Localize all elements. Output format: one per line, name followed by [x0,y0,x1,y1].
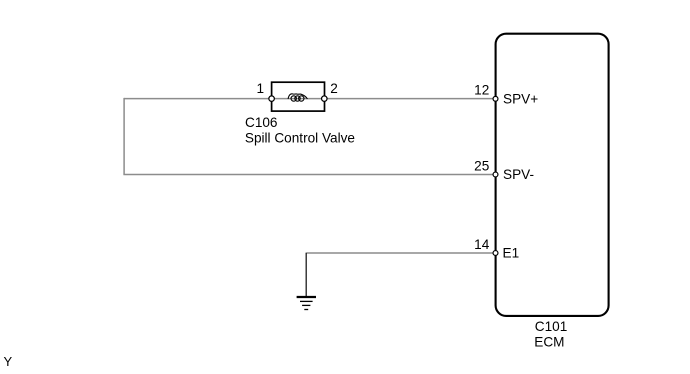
wire inside valve (terminal 1 to terminal 2 through coil) [272,98,324,100]
ECM pin 14 [493,251,498,256]
wire SPV- segment: left corner to ECM pin 25 [123,174,493,176]
wire SPV+ segment: valve terminal 1 to left corner [124,98,272,100]
ECM pin 25 [493,172,498,177]
svg-text:2: 2 [330,81,338,96]
coil (solenoid winding) [288,94,307,101]
svg-text:ECM: ECM [534,334,564,349]
ground [297,297,316,310]
wire: left vertical segment [123,98,125,175]
svg-text:SPV-: SPV- [503,167,534,182]
svg-text:Y: Y [4,354,13,369]
ECM pin 12 [493,96,498,101]
svg-text:Spill Control Valve: Spill Control Valve [245,130,355,145]
wire E1: ground corner to ECM pin 14 [306,252,494,254]
svg-text:C101: C101 [535,319,568,334]
svg-text:SPV+: SPV+ [503,92,538,107]
svg-text:E1: E1 [503,246,520,261]
valve terminal 2 [322,96,328,102]
valve terminal 1 [269,96,275,102]
ECM connector box C101 [496,34,609,316]
wire SPV+ segment: valve terminal 2 to ECM pin 12 [324,98,494,100]
svg-text:14: 14 [474,237,490,252]
svg-text:1: 1 [256,81,264,96]
svg-text:C106: C106 [245,115,278,130]
wire: ground stem vertical [305,253,307,297]
valve body C106 [272,82,325,111]
svg-text:25: 25 [474,158,489,173]
svg-text:12: 12 [474,83,489,98]
